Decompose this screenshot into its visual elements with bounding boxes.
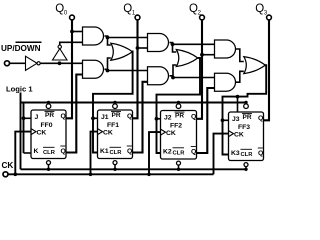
svg-text:K2: K2 bbox=[163, 149, 172, 156]
svg-text:FF0: FF0 bbox=[41, 122, 53, 129]
svg-text:Q: Q bbox=[127, 148, 132, 155]
svg-text:CK: CK bbox=[37, 130, 47, 137]
svg-text:Q: Q bbox=[191, 149, 196, 156]
svg-text:Q: Q bbox=[61, 148, 66, 155]
svg-text:PR: PR bbox=[112, 112, 121, 119]
svg-text:CK: CK bbox=[2, 161, 14, 170]
svg-text:PR: PR bbox=[175, 113, 184, 120]
svg-text:Logic 1: Logic 1 bbox=[6, 85, 33, 94]
svg-text:J2: J2 bbox=[164, 115, 172, 122]
svg-text:K: K bbox=[34, 148, 39, 155]
svg-text:FF1: FF1 bbox=[107, 122, 119, 129]
svg-text:CLR: CLR bbox=[173, 151, 186, 157]
svg-text:Q: Q bbox=[258, 150, 263, 157]
svg-text:J1: J1 bbox=[101, 114, 109, 121]
svg-text:FF3: FF3 bbox=[238, 124, 250, 131]
svg-text:Q: Q bbox=[127, 113, 132, 120]
svg-text:Q: Q bbox=[191, 114, 196, 121]
svg-text:K1: K1 bbox=[100, 148, 109, 155]
svg-text:J: J bbox=[35, 114, 39, 121]
svg-text:UP/DOWN: UP/DOWN bbox=[1, 44, 41, 53]
svg-text:CK: CK bbox=[103, 130, 113, 137]
svg-text:K3: K3 bbox=[231, 150, 240, 157]
svg-text:CLR: CLR bbox=[110, 150, 123, 156]
svg-text:J3: J3 bbox=[232, 116, 240, 123]
svg-text:CK: CK bbox=[234, 132, 244, 139]
svg-text:CK: CK bbox=[166, 130, 176, 137]
svg-text:PR: PR bbox=[243, 114, 252, 121]
svg-text:FF2: FF2 bbox=[170, 123, 182, 130]
svg-text:Q: Q bbox=[61, 113, 66, 120]
svg-text:Q: Q bbox=[258, 115, 263, 122]
svg-text:CLR: CLR bbox=[241, 152, 254, 158]
svg-text:PR: PR bbox=[45, 112, 54, 119]
svg-text:CLR: CLR bbox=[43, 150, 56, 156]
